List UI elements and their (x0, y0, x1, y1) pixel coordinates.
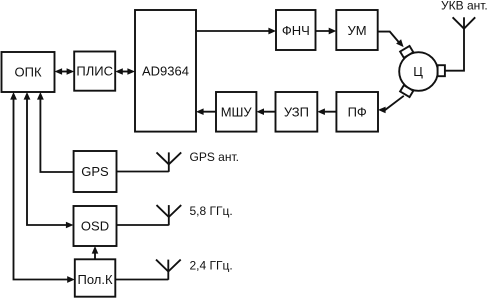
block MShU (МШУ LNA) (216, 92, 256, 132)
block AD9364 U1 (135, 10, 196, 132)
svg-text:МШУ: МШУ (221, 105, 253, 120)
svg-text:ПЛИС: ПЛИС (76, 64, 113, 79)
antenna 5.8GHz (168, 217, 170, 225)
block UZP (УЗП) (276, 92, 318, 132)
antenna 2.4GHz (167, 272, 169, 280)
wire AD9364 to FNCh (196, 30, 273, 32)
svg-text:2,4 ГГц.: 2,4 ГГц. (190, 259, 233, 273)
antenna VHF (УКВ) (453, 17, 476, 28)
block PLIS (ПЛИС) (74, 52, 115, 91)
wire OPK to OSD (line B) (27, 95, 71, 225)
circulator port lower-left (400, 85, 413, 97)
wire UZP to MShU (259, 111, 275, 113)
arrowhead into MShU (256, 108, 264, 115)
circulator port upper-left (400, 46, 413, 58)
wire OPK-PLIS bidirectional (57, 71, 72, 73)
svg-text:ПФ: ПФ (348, 105, 367, 120)
arrowhead into PolK (67, 276, 75, 283)
wire OPK to GPS (line C) (40, 95, 73, 172)
arrowhead up into OPK from line C (37, 92, 44, 100)
svg-text:ОПК: ОПК (14, 65, 41, 80)
wire PolK to OSD vertical (94, 250, 96, 260)
wire PolK to 2.4GHz antenna (115, 279, 168, 281)
arrowhead into circulator upper port (396, 39, 404, 47)
wire PF to UZP (320, 111, 336, 113)
arrowhead into PF (378, 107, 386, 114)
arrowhead into PLIS (right of OPK-PLIS wire) (67, 68, 75, 75)
arrowhead up into OPK from line B (24, 92, 31, 100)
svg-text:Пол.К: Пол.К (77, 272, 112, 287)
arrowhead into AD9364 from MShU (196, 108, 204, 115)
svg-text:Ц: Ц (413, 64, 423, 79)
circulator Ts (Ц) body (399, 52, 438, 91)
wire PLIS-AD9364 bidirectional (118, 71, 134, 73)
block OPK (ОПК) (2, 52, 55, 92)
arrowhead up into OPK from line A (10, 92, 17, 100)
arrowhead into PLIS (left of PLIS-AD9364 wire) (115, 68, 123, 75)
wire MShU to AD9364 (199, 111, 216, 113)
wire circulator right port to VHF antenna (445, 29, 464, 71)
wire OPK to PolK (line A) (14, 95, 72, 280)
svg-text:УКВ ант.: УКВ ант. (441, 0, 488, 13)
svg-text:УМ: УМ (347, 23, 366, 38)
block OSD (74, 206, 117, 246)
svg-text:УЗП: УЗП (284, 105, 309, 120)
block PF (ПФ band filter) (336, 92, 378, 132)
arrowhead into AD9364 (right of PLIS-AD9364 wire) (127, 68, 135, 75)
block UM (УМ power amp) (336, 10, 377, 50)
arrowhead up into OSD from PolK (92, 246, 99, 254)
arrowhead into FNCh (268, 28, 276, 35)
arrowhead into OPK (left of OPK-PLIS wire) (55, 68, 63, 75)
wire GPS to GPS antenna (117, 171, 169, 173)
arrowhead into UZP (317, 108, 325, 115)
svg-text:ФНЧ: ФНЧ (282, 23, 310, 38)
wire OSD to 5.8GHz antenna (117, 224, 169, 226)
wire UM to circulator (horiz + diagonal) (378, 32, 400, 43)
block GPS (74, 151, 117, 192)
block PolK (Пол.К) (75, 259, 116, 296)
block FNCh (ФНЧ low-pass filter) (276, 10, 316, 50)
svg-text:AD9364: AD9364 (142, 64, 189, 79)
arrowhead into OSD (66, 222, 74, 229)
svg-text:OSD: OSD (81, 219, 109, 234)
wire FNCh to UM (316, 30, 334, 32)
wire circulator to PF (diagonal + horiz) (381, 96, 404, 110)
svg-text:5,8 ГГц.: 5,8 ГГц. (190, 204, 233, 218)
arrowhead into UM (329, 28, 337, 35)
circulator port right (438, 65, 445, 76)
svg-text:GPS ант.: GPS ант. (190, 150, 239, 164)
antenna GPS (168, 164, 170, 172)
svg-text:GPS: GPS (81, 164, 109, 179)
